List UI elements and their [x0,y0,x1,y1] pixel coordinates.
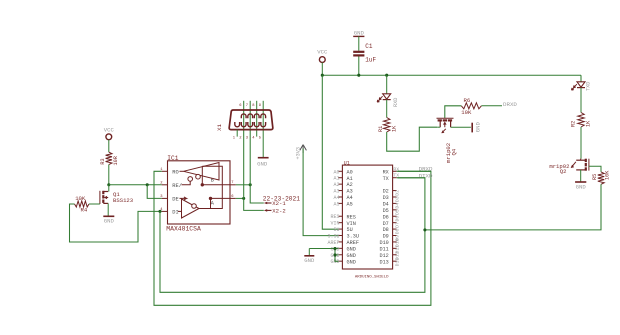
svg-text:D4: D4 [395,203,401,209]
svg-text:A5: A5 [333,201,339,207]
svg-text:A0: A0 [347,169,353,175]
svg-text:R3: R3 [100,158,106,164]
svg-text:VIN: VIN [347,221,356,227]
svg-text:A3: A3 [347,189,353,195]
svg-text:DE: DE [172,197,178,203]
svg-text:Q2: Q2 [560,168,567,175]
svg-text:D8: D8 [395,228,401,234]
svg-text:10K: 10K [75,195,86,202]
svg-text:10K: 10K [604,170,610,180]
svg-text:A5: A5 [347,202,353,208]
svg-text:+3V3: +3V3 [295,147,301,159]
svg-text:DI: DI [172,210,178,216]
svg-text:R2: R2 [571,121,577,127]
svg-text:D3: D3 [383,195,389,201]
svg-text:D6: D6 [395,216,401,222]
svg-text:GND: GND [576,183,587,190]
svg-text:3.3U: 3.3U [347,234,359,240]
svg-text:AREF: AREF [347,240,359,246]
svg-text:A1: A1 [347,176,353,182]
svg-text:A0: A0 [333,169,339,175]
svg-text:GND: GND [104,218,115,225]
svg-text:D13: D13 [379,259,388,265]
svg-text:A4: A4 [333,195,339,201]
svg-text:1K: 1K [391,125,397,132]
svg-text:R5: R5 [592,174,598,180]
svg-text:D5: D5 [383,208,389,214]
svg-text:D5: D5 [395,209,401,215]
svg-text:1uF: 1uF [365,57,376,64]
svg-text:RXD: RXD [393,98,399,107]
svg-text:D11: D11 [379,246,388,252]
svg-text:R4: R4 [81,207,88,214]
svg-text:MAX481CSA: MAX481CSA [166,226,201,233]
svg-text:R6: R6 [464,97,471,104]
svg-text:DRXD: DRXD [503,101,517,108]
svg-text:RX: RX [383,169,390,175]
svg-text:D9: D9 [383,234,389,240]
svg-text:D8: D8 [383,227,389,233]
svg-text:BSS123: BSS123 [113,197,133,204]
svg-text:GND: GND [347,253,356,259]
svg-text:22-23-2021: 22-23-2021 [263,195,300,202]
svg-text:GND: GND [347,246,356,252]
svg-text:5U: 5U [347,227,353,233]
svg-text:A1: A1 [333,176,339,182]
svg-text:A3: A3 [333,189,339,195]
svg-text:A4: A4 [347,195,353,201]
svg-text:Q4: Q4 [450,148,457,155]
svg-text:D4: D4 [383,202,389,208]
svg-text:GND: GND [475,121,482,132]
svg-text:5U: 5U [333,227,339,233]
svg-text:X2-2: X2-2 [272,208,285,215]
svg-text:VCC: VCC [104,126,115,133]
svg-text:GND: GND [347,259,356,265]
svg-text:D2: D2 [383,189,389,195]
svg-text:VCC: VCC [317,48,328,55]
svg-text:GND: GND [304,257,315,264]
svg-text:A2: A2 [333,182,339,188]
svg-text:D6: D6 [383,214,389,220]
svg-text:ARDUINO_SHIELD: ARDUINO_SHIELD [355,275,389,279]
svg-text:GND: GND [257,160,268,167]
svg-text:AREF: AREF [327,240,339,246]
svg-text:3.3U: 3.3U [327,234,339,240]
svg-text:C1: C1 [365,43,373,50]
svg-text:RES: RES [330,214,339,220]
svg-text:10R: 10R [113,156,119,165]
svg-text:TX: TX [383,176,390,182]
svg-text:RO: RO [172,169,178,175]
svg-text:1K: 1K [586,120,592,127]
svg-text:IC1: IC1 [167,155,178,162]
svg-text:A2: A2 [347,182,353,188]
svg-text:GND: GND [354,30,365,37]
svg-text:RE/: RE/ [172,183,182,189]
svg-text:D2: D2 [395,190,401,196]
svg-text:D7: D7 [383,221,389,227]
svg-text:10K: 10K [461,109,472,116]
svg-text:D13: D13 [395,258,401,267]
svg-text:U1: U1 [344,160,350,166]
svg-text:D7: D7 [395,222,401,228]
svg-text:TXD: TXD [585,82,591,91]
svg-text:7: 7 [246,104,248,108]
svg-text:VIN: VIN [330,221,339,227]
svg-text:R1: R1 [378,126,384,132]
svg-text:RES: RES [347,214,356,220]
svg-text:D12: D12 [379,253,388,259]
svg-text:D3: D3 [395,196,401,202]
svg-text:7: 7 [231,181,233,185]
svg-text:X1: X1 [216,124,223,131]
svg-text:D10: D10 [379,240,388,246]
